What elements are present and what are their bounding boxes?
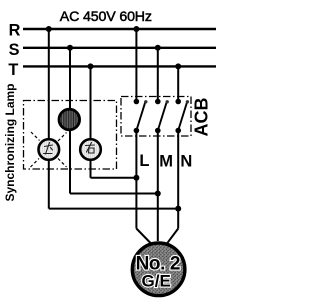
svg-text:M: M [159,152,173,170]
svg-text:Synchronizing Lamp: Synchronizing Lamp [3,83,17,201]
svg-text:AC 450V 60Hz: AC 450V 60Hz [60,9,152,25]
svg-text:T: T [8,61,18,79]
svg-text:G/E: G/E [142,272,171,291]
svg-text:S: S [9,41,20,59]
svg-text:N: N [180,152,192,170]
svg-text:ACB: ACB [192,98,212,137]
svg-text:R: R [9,22,21,40]
svg-text:L: L [139,152,149,170]
